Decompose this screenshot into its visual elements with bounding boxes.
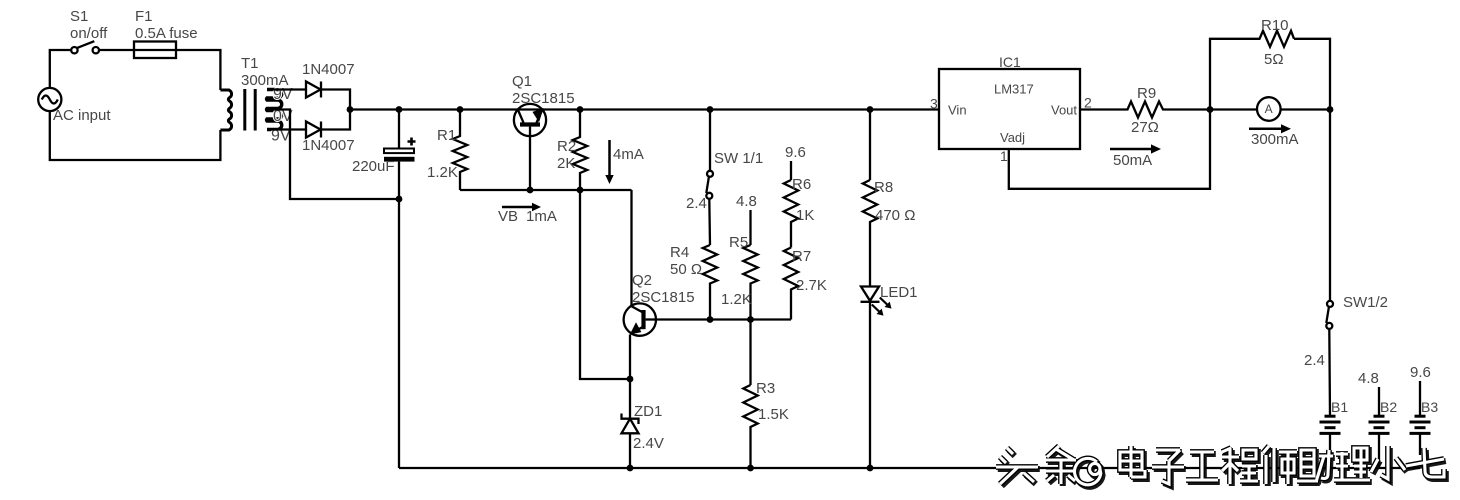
- AC source V1: [38, 88, 61, 111]
- svg-text:R2: R2: [557, 138, 576, 155]
- svg-text:Vout: Vout: [1051, 103, 1077, 118]
- node ZD1 ground junction: [627, 465, 634, 472]
- wire Q2 emitter to node B: [629, 335, 631, 380]
- wire node to ammeter: [1210, 108, 1257, 110]
- LED1 emission arrows: [872, 298, 892, 316]
- svg-text:R7: R7: [792, 248, 811, 265]
- svg-text:470 Ω: 470 Ω: [875, 207, 915, 224]
- svg-text:R8: R8: [874, 179, 893, 196]
- resistor R7: [784, 248, 798, 320]
- node capacitor top junction: [396, 106, 403, 113]
- resistor R3: [743, 385, 757, 468]
- wire Q2 base bus y319.5: [656, 318, 791, 320]
- wire 4.8 stub to B2: [1378, 387, 1380, 416]
- resistor R6: [784, 180, 798, 248]
- svg-text:Vadj: Vadj: [1000, 130, 1025, 145]
- svg-text:4.8: 4.8: [1358, 370, 1379, 387]
- wire LED1 cathode to ground rail: [869, 302, 871, 468]
- wire ZD1 anode to ground rail: [629, 433, 631, 468]
- svg-text:9.6: 9.6: [785, 144, 806, 161]
- svg-text:Vin: Vin: [948, 103, 967, 118]
- svg-text:R1: R1: [437, 127, 456, 144]
- svg-text:B3: B3: [1421, 399, 1438, 415]
- svg-text:220uF: 220uF: [352, 158, 395, 175]
- svg-text:on/off: on/off: [70, 25, 108, 42]
- svg-text:1mA: 1mA: [526, 208, 557, 225]
- svg-text:2: 2: [1084, 95, 1092, 111]
- svg-text:1N4007: 1N4007: [302, 61, 355, 78]
- svg-text:AC input: AC input: [53, 107, 111, 124]
- Q1 emitter arrowhead: [533, 109, 543, 121]
- node R9 output junction: [1207, 106, 1214, 113]
- svg-text:VB: VB: [498, 208, 518, 225]
- op-amp regulator IC1 LM317 body: [939, 69, 1080, 149]
- wire SW1/1 to R4: [708, 199, 711, 245]
- wire B1 to ground rail: [1329, 433, 1331, 468]
- transformer T1 primary winding: [220, 90, 231, 130]
- switch SW1/2: [1326, 301, 1333, 329]
- resistor R4: [703, 245, 717, 320]
- diode D2 1N4007 bottom: [306, 122, 321, 138]
- svg-text:4mA: 4mA: [613, 146, 644, 163]
- wire B3 bottom lead: [1419, 433, 1421, 455]
- svg-text:Q2: Q2: [632, 272, 652, 289]
- svg-text:1: 1: [1000, 148, 1008, 164]
- wire AC loop bottom: [50, 111, 221, 160]
- node R2 bottom junction: [577, 187, 584, 194]
- svg-text:R10: R10: [1261, 17, 1289, 34]
- polarity plus sign: [408, 138, 416, 146]
- svg-text:R3: R3: [756, 380, 775, 397]
- wire rail to SW1/1: [709, 110, 711, 171]
- svg-text:B2: B2: [1380, 399, 1397, 415]
- node R4 bottom junction: [707, 316, 714, 323]
- wire cap top lead: [398, 110, 400, 149]
- svg-text:0.5A fuse: 0.5A fuse: [135, 25, 198, 42]
- svg-text:R6: R6: [792, 176, 811, 193]
- svg-text:2SC1815: 2SC1815: [512, 90, 575, 107]
- svg-text:2K: 2K: [557, 155, 575, 172]
- resistor R1: [453, 110, 467, 191]
- capacitor C1 220uF: [384, 149, 415, 162]
- wire 4.8 stub to R5: [749, 210, 751, 245]
- transformer T1 core: [245, 89, 255, 131]
- svg-text:LED1: LED1: [880, 284, 918, 301]
- resistor R2: [573, 110, 587, 191]
- svg-text:2.4: 2.4: [1304, 352, 1325, 369]
- wire rail to R8: [869, 110, 871, 181]
- switch S1: [71, 41, 99, 53]
- transformer T1 secondary winding: [267, 90, 282, 130]
- switch SW 1/1: [706, 171, 713, 199]
- svg-text:IC1: IC1: [999, 54, 1021, 70]
- current arrow VB 1mA: [502, 203, 541, 211]
- svg-text:1N4007: 1N4007: [302, 137, 355, 154]
- svg-text:SW1/2: SW1/2: [1343, 294, 1388, 311]
- battery B1: [1320, 416, 1341, 433]
- diode LED1: [861, 287, 880, 302]
- wire base bus corner down to Q2 collector: [630, 190, 632, 306]
- svg-text:3: 3: [930, 96, 938, 112]
- node R5 bottom junction: [747, 316, 754, 323]
- svg-text:27Ω: 27Ω: [1131, 119, 1159, 136]
- svg-text:1.2K: 1.2K: [721, 291, 752, 308]
- svg-text:Q1: Q1: [512, 73, 532, 90]
- wire ammeter to node C: [1281, 108, 1330, 110]
- svg-text:2.4: 2.4: [686, 195, 707, 212]
- node C output junction: [1327, 106, 1334, 113]
- zener ZD1: [622, 414, 639, 434]
- transistor Q1 2SC1815: [514, 104, 546, 190]
- wire S1 to F1: [99, 49, 134, 51]
- transistor Q2 2SC1815: [624, 303, 656, 335]
- wire SW1/2 to B1: [1328, 329, 1331, 416]
- svg-text:4.8: 4.8: [736, 193, 757, 210]
- node cap bottom junction: [396, 196, 403, 203]
- current arrow 300mA: [1249, 124, 1291, 133]
- node R2 top junction: [577, 106, 584, 113]
- wire Vout pin2 to R9: [1080, 108, 1124, 110]
- svg-text:LM317: LM317: [994, 82, 1034, 97]
- resistor R5: [743, 245, 757, 320]
- svg-text:50 Ω: 50 Ω: [670, 261, 702, 278]
- node R3 ground junction: [747, 465, 754, 472]
- watermark toutiao text: [998, 448, 1446, 487]
- wire node B to ZD1: [629, 379, 631, 418]
- wire base bus y190: [460, 189, 632, 191]
- svg-text:R5: R5: [729, 234, 748, 251]
- svg-text:F1: F1: [135, 8, 153, 25]
- resistor R10: [1256, 31, 1294, 47]
- wire node C down to SW1/2: [1329, 110, 1331, 301]
- node R1 top junction: [457, 106, 464, 113]
- wire D1 cathode to node A: [321, 90, 350, 110]
- svg-text:SW 1/1: SW 1/1: [714, 150, 763, 167]
- svg-text:R4: R4: [670, 244, 689, 261]
- wire AC loop left/top: [50, 50, 71, 88]
- svg-text:2SC1815: 2SC1815: [632, 289, 695, 306]
- wire 9.6 stub to R6: [790, 161, 792, 180]
- node LED1 ground junction: [867, 465, 874, 472]
- node B emitter junction: [627, 376, 634, 383]
- current arrow 4mA: [605, 140, 613, 184]
- ammeter A: [1257, 97, 1281, 121]
- wire R10 shunt loop: [1210, 39, 1330, 110]
- svg-text:1.2K: 1.2K: [427, 164, 458, 181]
- svg-text:2.4V: 2.4V: [633, 435, 664, 452]
- svg-text:S1: S1: [70, 8, 88, 25]
- resistor R9: [1124, 102, 1210, 118]
- svg-text:1K: 1K: [796, 207, 814, 224]
- wire B2 bottom lead: [1378, 433, 1380, 468]
- diode D1 1N4007 top: [306, 82, 321, 98]
- wire 0V tap return: [267, 110, 399, 200]
- wire 9.6 stub to B3: [1419, 381, 1421, 416]
- svg-text:B1: B1: [1331, 399, 1348, 415]
- wire R2 bottom to Q2 emitter node: [580, 190, 630, 379]
- wire D2 cathode to node A: [321, 110, 350, 130]
- Q2 emitter arrowhead: [631, 323, 641, 334]
- wire secondary bottom tap to D2: [267, 128, 306, 130]
- wire cap bottom lead: [398, 162, 400, 199]
- svg-text:50mA: 50mA: [1113, 152, 1152, 169]
- node SW1/1 top junction: [707, 106, 714, 113]
- wire F1 to transformer primary: [176, 50, 220, 90]
- wire main positive rail: [350, 108, 939, 110]
- battery B2: [1369, 416, 1390, 433]
- wire ground rail bottom: [399, 467, 1420, 469]
- current arrow 50mA: [1110, 144, 1161, 153]
- svg-text:1.5K: 1.5K: [758, 406, 789, 423]
- svg-text:ZD1: ZD1: [634, 403, 662, 420]
- svg-text:9.6: 9.6: [1410, 364, 1431, 381]
- node A junction dot: [347, 106, 354, 113]
- wire R5 node down to R3: [749, 320, 751, 386]
- battery B3: [1410, 416, 1431, 433]
- svg-text:300mA: 300mA: [1251, 131, 1299, 148]
- wire negative rail down left: [398, 199, 400, 468]
- svg-text:T1: T1: [241, 55, 259, 72]
- svg-text:A: A: [1265, 102, 1273, 116]
- svg-text:5Ω: 5Ω: [1264, 51, 1284, 68]
- node Q1 base junction: [527, 187, 534, 194]
- wire Vadj pin1 return: [1009, 110, 1210, 189]
- svg-text:2.7K: 2.7K: [796, 277, 827, 294]
- resistor R8: [863, 180, 877, 286]
- svg-text:R9: R9: [1137, 85, 1156, 102]
- wire secondary top tap to D1: [267, 88, 306, 90]
- node R8 top junction: [867, 106, 874, 113]
- fuse F1: [134, 42, 176, 59]
